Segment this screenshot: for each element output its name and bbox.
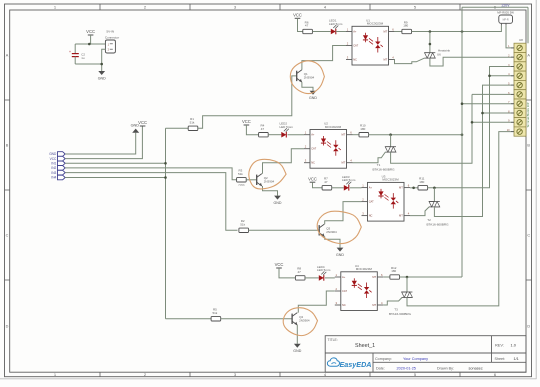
wire LED4 to U4 pin1 (325, 277, 335, 279)
junction IN1 (164, 162, 167, 165)
wire bus to R1 (166, 127, 189, 129)
svg-text:51k: 51k (238, 172, 243, 176)
svg-text:GND: GND (293, 349, 301, 353)
junction T3 MT2 (406, 276, 409, 279)
wire bus to R5 (166, 318, 212, 320)
wire U1 CAT to Q1 collector (302, 46, 346, 70)
svg-text:180: 180 (360, 127, 365, 131)
wire 220V to terminal top (527, 7, 529, 43)
svg-text:5V-IN: 5V-IN (106, 30, 114, 34)
wire IN3 to R2 (65, 173, 237, 231)
svg-text:MT: MT (384, 58, 388, 62)
svg-text:NC: NC (342, 303, 346, 307)
EasyEDA logo (327, 358, 371, 369)
svg-text:MT: MT (372, 303, 376, 307)
wire U3 CAT to Q3 collector (325, 202, 362, 225)
wire T2 MT2 (433, 188, 435, 202)
ground Q2 (274, 196, 282, 205)
wire node to connector pin1 (75, 43, 105, 45)
LED LED3 (342, 175, 356, 191)
svg-text:VCC: VCC (86, 29, 95, 34)
wire VCC2 to R4 (246, 125, 258, 135)
svg-text:U8: U8 (519, 38, 523, 42)
svg-text:+: + (69, 50, 71, 54)
wire U3 pin6 to R11 (410, 187, 418, 189)
ground connector block (98, 71, 106, 80)
svg-text:1u: 1u (81, 56, 85, 60)
junction pin6 (412, 187, 415, 190)
annotation circle around Q2 (249, 159, 286, 189)
wire R4 to LED2 (268, 134, 281, 136)
svg-text:GND: GND (49, 152, 57, 156)
wire Q1 emitter to GND (302, 82, 313, 91)
svg-text:GND: GND (274, 201, 282, 205)
svg-text:A: A (527, 53, 530, 57)
svg-text:C: C (527, 233, 530, 237)
svg-text:1/1: 1/1 (514, 357, 519, 361)
wire Q2 emitter to GND (263, 186, 278, 196)
wire R11 to terminal pin3 riser (428, 67, 514, 188)
wire LED1 to U1 pin1 (336, 31, 346, 33)
svg-text:EasyEDA: EasyEDA (340, 360, 372, 369)
svg-text:U6: U6 (437, 53, 441, 57)
resistor R9 180 (402, 20, 412, 33)
triac U6 Heatsink (425, 53, 436, 58)
svg-text:MT: MT (399, 186, 403, 190)
svg-text:NC: NC (311, 161, 315, 165)
power flag VCC ch4 (275, 262, 284, 268)
svg-text:51k: 51k (190, 120, 195, 124)
svg-text:BTA16-600BRG: BTA16-600BRG (372, 168, 395, 172)
resistor R6 47 (303, 20, 313, 33)
ground up-flag near header (131, 123, 140, 132)
junction pin9 (471, 121, 474, 124)
power flag VCC ch2 (242, 119, 251, 125)
op-amp U1 optocoupler U1 (346, 18, 395, 65)
resistor R2 51k (239, 219, 249, 232)
wire triac U6 MT2 (429, 32, 431, 53)
svg-text:Date:: Date: (376, 367, 385, 371)
wire Q4 emitter to GND (296, 325, 298, 344)
svg-text:MOC3023M: MOC3023M (367, 22, 384, 26)
svg-text:MT: MT (384, 30, 388, 34)
svg-text:47: 47 (305, 24, 309, 28)
resistor R4 47 (259, 124, 269, 137)
wire U2 CAT to Q2 collector (263, 149, 305, 174)
resistor R10 180 (359, 124, 369, 137)
junction T2 MT2 (433, 187, 436, 190)
svg-text:51k: 51k (212, 311, 217, 315)
svg-text:LED 5mm: LED 5mm (280, 125, 294, 129)
svg-text:CAT: CAT (342, 289, 347, 293)
annotation circle around Q4 (283, 308, 317, 336)
svg-text:GND: GND (98, 76, 106, 80)
svg-text:Connector: Connector (105, 36, 119, 40)
svg-text:TITLE:: TITLE: (328, 338, 338, 342)
svg-text:CAT: CAT (369, 200, 374, 204)
wire T2 MT1 to terminal pin5 riser (434, 85, 514, 216)
wire VCC3 to R7 (313, 182, 323, 188)
svg-text:A: A (6, 53, 9, 57)
LED LED4 (317, 265, 331, 281)
svg-text:CAT: CAT (353, 44, 358, 48)
wire LED3 to U3 pin1 (350, 187, 362, 189)
svg-text:MT: MT (342, 161, 346, 165)
wire VCC4 to R8 (279, 268, 295, 278)
wire GND flag riser (65, 133, 136, 154)
wire 220V stub terminal pin7 (462, 103, 514, 105)
power flag VCC ch3 (308, 176, 317, 182)
wire VCC flag riser (65, 126, 142, 159)
svg-text:Drawn By:: Drawn By: (437, 367, 454, 371)
power flag VCC top connector (86, 29, 95, 35)
resistor R11 180 (418, 177, 428, 190)
wire U2 pin6 to R10 (353, 134, 360, 136)
transistor Q1 2N3904 (297, 70, 315, 82)
net flag GND (49, 152, 65, 157)
svg-text:C: C (6, 233, 9, 237)
svg-text:Sheet:: Sheet: (495, 357, 506, 361)
wire R9 to fuse (220V bus) (412, 25, 502, 31)
junction 220V riser (461, 30, 464, 33)
wire R3 to Q2 base (246, 179, 257, 181)
wire R7 to LED3 (332, 187, 344, 189)
svg-text:VCC: VCC (293, 13, 302, 18)
svg-text:VCC: VCC (138, 120, 147, 125)
wire main input vertical bus (165, 128, 167, 318)
junction C2/GND (100, 63, 103, 66)
svg-text:LED 5mm: LED 5mm (317, 268, 331, 272)
svg-text:NC: NC (369, 214, 373, 218)
svg-text:MF-R: MF-R (503, 18, 509, 21)
junction on 220V riser (461, 133, 464, 136)
svg-text:A+: A+ (353, 30, 357, 34)
stub terminal pin9 (472, 121, 514, 123)
junction IN4 (164, 176, 167, 179)
wire 220V top (462, 6, 528, 8)
wire connector pin2 down (102, 49, 106, 71)
transistor Q3 2N3904 (319, 224, 337, 236)
wire VCC1 to R6 (298, 18, 303, 31)
resistor R12 180 (390, 266, 400, 279)
svg-text:MOC3023M: MOC3023M (382, 178, 399, 182)
triac T2 (429, 202, 440, 207)
svg-text:Terminal Blocks 10P: Terminal Blocks 10P (526, 102, 530, 127)
ground Q1 (309, 91, 317, 100)
svg-text:A+: A+ (342, 275, 346, 279)
wire Q3 emitter to GND (325, 237, 340, 248)
junction VCC/C2/pin1 (88, 43, 91, 46)
net flag IN3 (51, 170, 65, 175)
LED LED1 (329, 19, 343, 35)
resistor R5 51k (211, 308, 221, 321)
wire T3 MT2 (406, 277, 408, 292)
wire U3 pin4 to T2 gate (410, 207, 429, 216)
wire IN1 (65, 162, 165, 164)
annotation circle around Q3 (317, 211, 361, 243)
svg-text:MF-R005 5W: MF-R005 5W (497, 10, 514, 14)
svg-text:D: D (6, 324, 9, 328)
junction on MT2 (429, 43, 432, 46)
stub terminal pin8 (483, 112, 515, 114)
fuse F1 MF-R005 (497, 10, 514, 25)
junction T1 MT2 (389, 133, 392, 136)
wire IN2 to R3 (65, 168, 236, 180)
stub terminal pin6 (472, 93, 514, 95)
power flag VCC ch1 (293, 13, 302, 19)
svg-text:LED 5mm: LED 5mm (342, 178, 356, 182)
wire U4 pin4 to T3 gate (383, 297, 402, 305)
svg-text:Your Company: Your Company (403, 357, 428, 361)
svg-text:51k: 51k (240, 222, 245, 226)
resistor R7 47 (322, 177, 332, 190)
svg-text:VCC: VCC (242, 119, 251, 124)
stub terminal pin4 (490, 75, 515, 77)
wire R12 to 220V riser end (400, 276, 463, 278)
svg-text:D: D (527, 324, 530, 328)
svg-text:7056: 7056 (238, 183, 245, 187)
svg-text:IN4: IN4 (51, 176, 56, 180)
svg-text:2N3904: 2N3904 (299, 319, 310, 323)
resistor R1 51k (188, 117, 198, 130)
wire R2 to Q3 base (249, 229, 320, 231)
svg-text:T3: T3 (394, 308, 398, 312)
frame ticks and labels (99, 4, 101, 10)
wire 220V riser (461, 7, 463, 277)
svg-text:47: 47 (261, 127, 265, 131)
junction pin7 (461, 102, 464, 105)
svg-text:GND: GND (309, 96, 317, 100)
op-amp U3 optocoupler U3 (362, 174, 411, 221)
svg-text:B: B (527, 143, 530, 147)
svg-text:GND: GND (336, 253, 344, 257)
svg-text:LED 5mm: LED 5mm (329, 22, 343, 26)
wire U1 pin6 to R9 (394, 31, 402, 33)
wire C2 to GND node (75, 63, 102, 65)
net flag IN1 (51, 161, 65, 166)
wire fuse pin2 to terminal pin1 (506, 25, 514, 48)
wire R10 to 220V riser (369, 134, 462, 136)
wire U6 MT1 to terminal pin2 (430, 57, 514, 66)
net flag VCC (50, 156, 66, 161)
ground Q4 (293, 344, 301, 353)
transistor Q4 2N3904 (292, 313, 310, 325)
LED LED2 (280, 122, 294, 138)
wire R1 to Q1 base (198, 76, 297, 128)
wire R5 to Q4 base (221, 318, 292, 320)
wire T1 MT2 (390, 135, 392, 147)
resistor R8 47 (295, 267, 305, 280)
wire LED2 to U2 pin1 (288, 134, 305, 136)
junction pin4 (488, 75, 491, 78)
svg-text:2020-01-25: 2020-01-25 (397, 367, 416, 371)
net flag IN2 (51, 166, 65, 171)
connector U8 terminal block (507, 38, 530, 136)
svg-text:2N3904: 2N3904 (264, 180, 275, 184)
wire T1 MT1 to terminal pin9 riser (391, 94, 472, 163)
wire R6 to LED1 (312, 31, 330, 33)
svg-text:BTA16-600BRG: BTA16-600BRG (426, 222, 449, 226)
svg-text:REV:: REV: (495, 342, 504, 347)
ground Q3 (336, 248, 344, 257)
resistor R3 51k (237, 169, 247, 182)
wire U1 pin4 to U6 gate (394, 58, 425, 64)
svg-text:CAT: CAT (311, 147, 316, 151)
svg-text:MT: MT (372, 275, 376, 279)
triac T1 (385, 147, 396, 152)
wire U4 CAT to Q4 collector (298, 291, 335, 313)
svg-text:IN2: IN2 (51, 166, 56, 170)
power flag VCC header (138, 120, 147, 126)
svg-text:VCC: VCC (275, 262, 284, 267)
title block (325, 336, 526, 373)
junction pin8 (481, 112, 484, 115)
svg-text:A+: A+ (311, 133, 315, 137)
svg-text:MT: MT (342, 133, 346, 137)
svg-text:IN3: IN3 (51, 171, 56, 175)
svg-text:180: 180 (419, 180, 424, 184)
svg-text:1.0: 1.0 (511, 342, 517, 347)
wire T3 MT1 to terminal pin10 riser (407, 132, 514, 306)
svg-text:Sheet_1: Sheet_1 (355, 343, 375, 349)
op-amp U2 optocoupler U2 (304, 122, 353, 169)
svg-text:IN1: IN1 (51, 162, 56, 166)
svg-text:A+: A+ (369, 186, 373, 190)
svg-text:180: 180 (391, 269, 396, 273)
svg-text:MOC3023M: MOC3023M (356, 267, 373, 271)
op-amp U4 optocoupler U4 (335, 264, 384, 311)
annotation circle around Q1 (290, 61, 324, 94)
svg-text:2N3904: 2N3904 (326, 230, 337, 234)
svg-text:BTA16-600BRG: BTA16-600BRG (389, 312, 412, 316)
svg-text:Company:: Company: (375, 357, 392, 361)
canvas page edge (535, 0, 537, 379)
wire IN4 (65, 177, 165, 179)
svg-text:VCC: VCC (308, 176, 317, 181)
connector J1 5V-IN (105, 30, 119, 53)
wire VCC stem to node (90, 35, 92, 44)
svg-text:B: B (6, 143, 9, 147)
svg-text:VCC: VCC (50, 157, 57, 161)
triac T3 (402, 292, 413, 297)
svg-text:180: 180 (403, 24, 408, 28)
svg-text:sonasec: sonasec (469, 367, 483, 371)
svg-text:MT: MT (399, 214, 403, 218)
wire U4 pin6 to R12 (383, 276, 390, 278)
svg-text:47: 47 (298, 270, 302, 274)
svg-text:47: 47 (324, 180, 328, 184)
junction triac U6 MT2 (429, 30, 432, 33)
svg-text:2N3904: 2N3904 (304, 76, 315, 80)
capacitor C2 (69, 44, 85, 64)
svg-text:MOC3023M: MOC3023M (325, 125, 342, 129)
wire U2 pin4 to T1 gate (353, 152, 386, 163)
net flag IN4 (51, 175, 65, 180)
wire R8 to LED4 (305, 277, 319, 279)
transistor Q2 2N3904 (257, 174, 275, 186)
svg-text:NC: NC (353, 58, 357, 62)
